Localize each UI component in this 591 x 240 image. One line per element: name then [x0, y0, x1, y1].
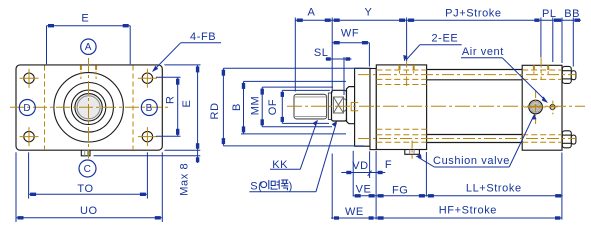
svg-text:S(: S(	[250, 180, 262, 192]
svg-text:WF: WF	[341, 27, 359, 39]
svg-text:F: F	[385, 159, 392, 171]
svg-text:HF+Stroke: HF+Stroke	[439, 205, 497, 217]
svg-text:D: D	[23, 103, 31, 114]
svg-text:2-EE: 2-EE	[431, 32, 458, 44]
svg-text:Max 8: Max 8	[178, 163, 190, 196]
svg-text:TO: TO	[77, 183, 93, 195]
svg-text:VD: VD	[352, 160, 368, 172]
svg-text:A: A	[308, 7, 316, 19]
svg-text:PJ+Stroke: PJ+Stroke	[445, 7, 501, 19]
svg-text:FG: FG	[392, 184, 408, 196]
svg-text:Y: Y	[365, 7, 373, 19]
svg-text:RD: RD	[209, 102, 221, 119]
svg-text:OF: OF	[267, 99, 279, 115]
svg-text:Cushion valve: Cushion valve	[433, 155, 510, 167]
svg-text:KK: KK	[272, 159, 288, 171]
svg-text:WE: WE	[345, 206, 364, 218]
svg-text:B: B	[146, 103, 153, 114]
svg-text:4-FB: 4-FB	[190, 31, 216, 43]
svg-text:BB: BB	[564, 8, 580, 20]
svg-text:VE: VE	[356, 184, 372, 196]
svg-text:Air vent: Air vent	[462, 46, 504, 58]
svg-text:SL: SL	[314, 47, 329, 59]
svg-text:MM: MM	[249, 96, 261, 116]
svg-text:B: B	[231, 103, 243, 111]
svg-text:R: R	[165, 95, 177, 104]
svg-text:LL+Stroke: LL+Stroke	[466, 183, 522, 195]
svg-text:PL: PL	[542, 8, 557, 20]
svg-text:C: C	[84, 164, 92, 175]
svg-text:): )	[289, 180, 293, 192]
svg-text:A: A	[85, 42, 92, 53]
svg-text:E: E	[181, 100, 193, 108]
svg-text:UO: UO	[80, 205, 98, 217]
svg-text:E: E	[81, 12, 89, 24]
